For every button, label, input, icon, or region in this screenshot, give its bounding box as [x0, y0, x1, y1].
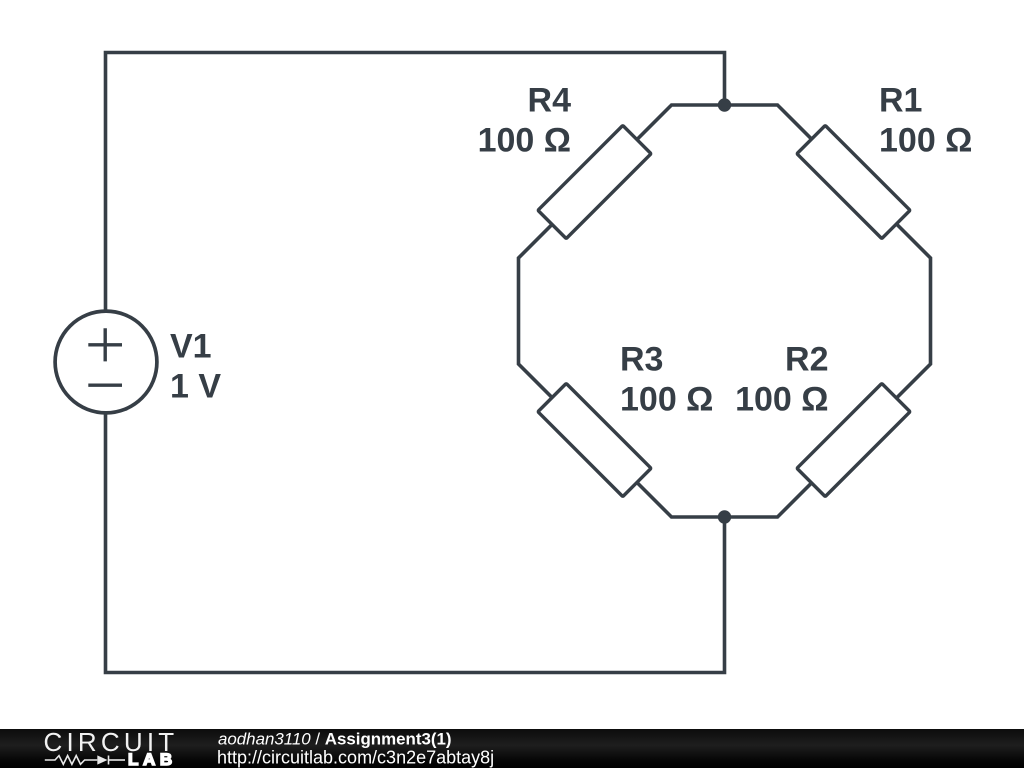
wire bridge right branch through R1 and R2 [725, 105, 931, 517]
resistor R3 body [538, 383, 651, 496]
svg-text:100 Ω: 100 Ω [478, 122, 571, 160]
wire bridge left branch through R4 and R3 [519, 105, 725, 517]
svg-text:100 Ω: 100 Ω [735, 381, 828, 419]
svg-text:100 Ω: 100 Ω [879, 122, 972, 160]
svg-text:aodhan3110 / Assignment3(1): aodhan3110 / Assignment3(1) [218, 729, 452, 748]
svg-text:1 V: 1 V [170, 368, 221, 406]
resistor R4 body [538, 125, 651, 238]
svg-text:R1: R1 [879, 82, 922, 120]
voltage source V1 [55, 311, 157, 413]
resistor R2 body [797, 383, 910, 496]
node top junction [718, 98, 731, 111]
svg-text:100 Ω: 100 Ω [620, 381, 713, 419]
svg-text:V1: V1 [170, 328, 212, 366]
resistor R1 body [797, 125, 910, 238]
svg-text:R3: R3 [620, 341, 663, 379]
svg-text:R2: R2 [785, 341, 828, 379]
wire bottom rail [106, 414, 725, 673]
svg-text:http://circuitlab.com/c3n2e7ab: http://circuitlab.com/c3n2e7abtay8j [217, 748, 494, 768]
node bottom junction [718, 510, 731, 523]
logo diode triangle [97, 755, 107, 764]
svg-text:R4: R4 [528, 82, 572, 120]
footer bar [0, 729, 1024, 768]
wire top rail [106, 53, 725, 311]
svg-text:LAB: LAB [128, 750, 177, 768]
logo resistor zigzag and diode [45, 756, 125, 765]
